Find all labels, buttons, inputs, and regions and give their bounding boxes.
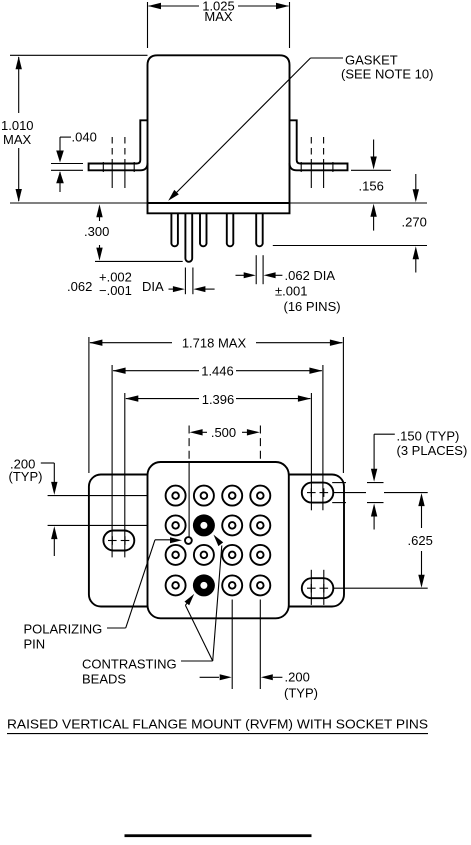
title underline bbox=[7, 733, 428, 735]
lower right slot centerlines vertical bbox=[311, 570, 324, 605]
dimension 1.718 MAX line bbox=[89, 340, 343, 346]
row extension lines for .200 bbox=[48, 496, 148, 526]
svg-text:.500: .500 bbox=[211, 425, 236, 440]
left flange slot bbox=[103, 531, 134, 551]
relay body outline bbox=[148, 55, 290, 203]
svg-text:DIA: DIA bbox=[142, 279, 164, 294]
label GASKET (SEE NOTE 10) bbox=[341, 53, 433, 82]
svg-text:.200: .200 bbox=[285, 670, 310, 685]
header base bbox=[148, 203, 290, 213]
dimension .200 (TYP) left leader bbox=[41, 463, 58, 556]
dimension .270 bbox=[413, 174, 419, 273]
row 3 bbox=[166, 545, 186, 565]
body footprint (covers flange lines behind) bbox=[148, 462, 289, 618]
dimension .156 bbox=[351, 140, 391, 231]
label 1.010 MAX bbox=[1, 118, 34, 147]
polarizing pin centerline bbox=[188, 462, 190, 537]
svg-text:RAISED VERTICAL FLANGE MOUNT (: RAISED VERTICAL FLANGE MOUNT (RVFM) WITH… bbox=[7, 717, 428, 732]
svg-text:(16 PINS): (16 PINS) bbox=[284, 299, 341, 314]
dimension .500 line bbox=[190, 429, 260, 435]
label .200 (TYP) left bbox=[9, 457, 43, 485]
svg-text:1.718 MAX: 1.718 MAX bbox=[182, 336, 247, 351]
pin 3 bbox=[200, 213, 207, 246]
svg-text:.156: .156 bbox=[359, 179, 384, 194]
pin bottom extension line bbox=[273, 245, 427, 247]
svg-text:PIN: PIN bbox=[24, 637, 46, 652]
svg-text:POLARIZING: POLARIZING bbox=[24, 622, 103, 637]
dimension 1.396 line bbox=[125, 395, 311, 401]
socket pin contacts 4x4 grid bbox=[166, 486, 271, 597]
label POLARIZING PIN bbox=[24, 622, 103, 652]
dimension 1.025 MAX line with arrows bbox=[148, 3, 289, 9]
row 2 (col2 = contrasting bead) bbox=[166, 515, 186, 535]
svg-text:CONTRASTING: CONTRASTING bbox=[82, 657, 177, 672]
polarizing pin leader bbox=[107, 537, 182, 628]
left mounting flange (L bracket) bbox=[89, 120, 148, 170]
svg-text:.040: .040 bbox=[72, 130, 97, 145]
label .062 DIA +-.001 (16 PINS) bbox=[275, 268, 341, 314]
bottom separator bar bbox=[125, 834, 312, 837]
svg-text:.062: .062 bbox=[67, 279, 92, 294]
row 4 (col2 = contrasting bead) bbox=[166, 575, 186, 595]
svg-text:(TYP): (TYP) bbox=[9, 469, 43, 484]
pin 1 bbox=[171, 213, 178, 246]
gasket line / body-base joint with extensions bbox=[10, 202, 427, 204]
label CONTRASTING BEADS bbox=[82, 657, 177, 687]
dimension 1.446 extension lines / hole centerlines bbox=[112, 365, 323, 557]
right mounting flange (L bracket) bbox=[290, 120, 348, 170]
dimension .300 bbox=[95, 204, 183, 261]
dimension .062 +.002 -.001 DIA of polarizing pin bbox=[169, 268, 215, 295]
flange plate outline bbox=[89, 475, 344, 607]
column extension lines for bottom .200 bbox=[232, 600, 260, 690]
svg-text:MAX: MAX bbox=[3, 132, 32, 147]
pin 4 bbox=[227, 213, 234, 246]
svg-text:±.001: ±.001 bbox=[275, 284, 307, 299]
svg-text:MAX: MAX bbox=[204, 9, 233, 24]
svg-text:1.446: 1.446 bbox=[201, 363, 234, 378]
upper right slot centerline horizontal bbox=[333, 492, 427, 494]
dimension .150 leader and arrows bbox=[332, 434, 395, 529]
dimension 1.010 MAX bbox=[16, 56, 22, 202]
svg-text:(SEE NOTE 10): (SEE NOTE 10) bbox=[341, 67, 433, 82]
body top extension line to left bbox=[10, 54, 148, 56]
svg-text:.270: .270 bbox=[402, 215, 427, 230]
dimension .040 flange thickness bbox=[51, 137, 83, 192]
svg-text:(3 PLACES): (3 PLACES) bbox=[397, 443, 468, 458]
label .200 (TYP) bottom bbox=[284, 670, 318, 701]
svg-text:.300: .300 bbox=[84, 224, 109, 239]
right flange hole hidden lines bbox=[301, 137, 333, 188]
svg-text:BEADS: BEADS bbox=[82, 672, 126, 687]
dimension .062 DIA +-.001 (16 PINS) bbox=[236, 255, 283, 284]
svg-text:(TYP): (TYP) bbox=[284, 686, 318, 701]
gasket leader bbox=[168, 58, 343, 201]
label .062 +.002 -.001 DIA bbox=[67, 270, 164, 299]
dimension 1.396 extension lines / hole centerlines bbox=[125, 393, 312, 557]
lower right flange slot bbox=[302, 578, 334, 598]
dimension .625 line bbox=[418, 493, 424, 588]
svg-text:1.010: 1.010 bbox=[1, 118, 34, 133]
svg-text:−.001: −.001 bbox=[99, 283, 132, 298]
polarizing pin hole bbox=[185, 537, 192, 544]
lower right slot target crosses bbox=[307, 584, 328, 593]
svg-text:1.396: 1.396 bbox=[202, 392, 235, 407]
left flange hole hidden lines bbox=[103, 137, 134, 188]
upper right flange slot bbox=[302, 483, 334, 503]
pin 5 bbox=[256, 213, 263, 246]
svg-text:GASKET: GASKET bbox=[345, 53, 398, 68]
dimension .500 extension lines bbox=[189, 426, 260, 462]
row 1 bbox=[166, 486, 186, 506]
svg-text:.062 DIA: .062 DIA bbox=[285, 268, 336, 283]
svg-text:.625: .625 bbox=[408, 533, 433, 548]
label .150 (TYP) (3 PLACES) bbox=[397, 429, 468, 459]
lower right slot centerline horizontal bbox=[333, 587, 427, 589]
dimension 1.718 MAX extension lines bbox=[89, 337, 344, 473]
pin 2 (long polarizing pin) bbox=[185, 213, 192, 261]
svg-text:.150 (TYP): .150 (TYP) bbox=[397, 429, 460, 444]
left slot target crosses bbox=[108, 536, 129, 545]
label 1.025 MAX bbox=[202, 0, 235, 24]
dimension .200 (TYP) bottom bbox=[200, 674, 283, 680]
upper right slot target crosses bbox=[307, 488, 328, 497]
dimension 1.446 line bbox=[113, 368, 323, 374]
dimension 1.025 MAX extension lines bbox=[148, 2, 290, 48]
contrasting beads leader bbox=[181, 535, 223, 661]
